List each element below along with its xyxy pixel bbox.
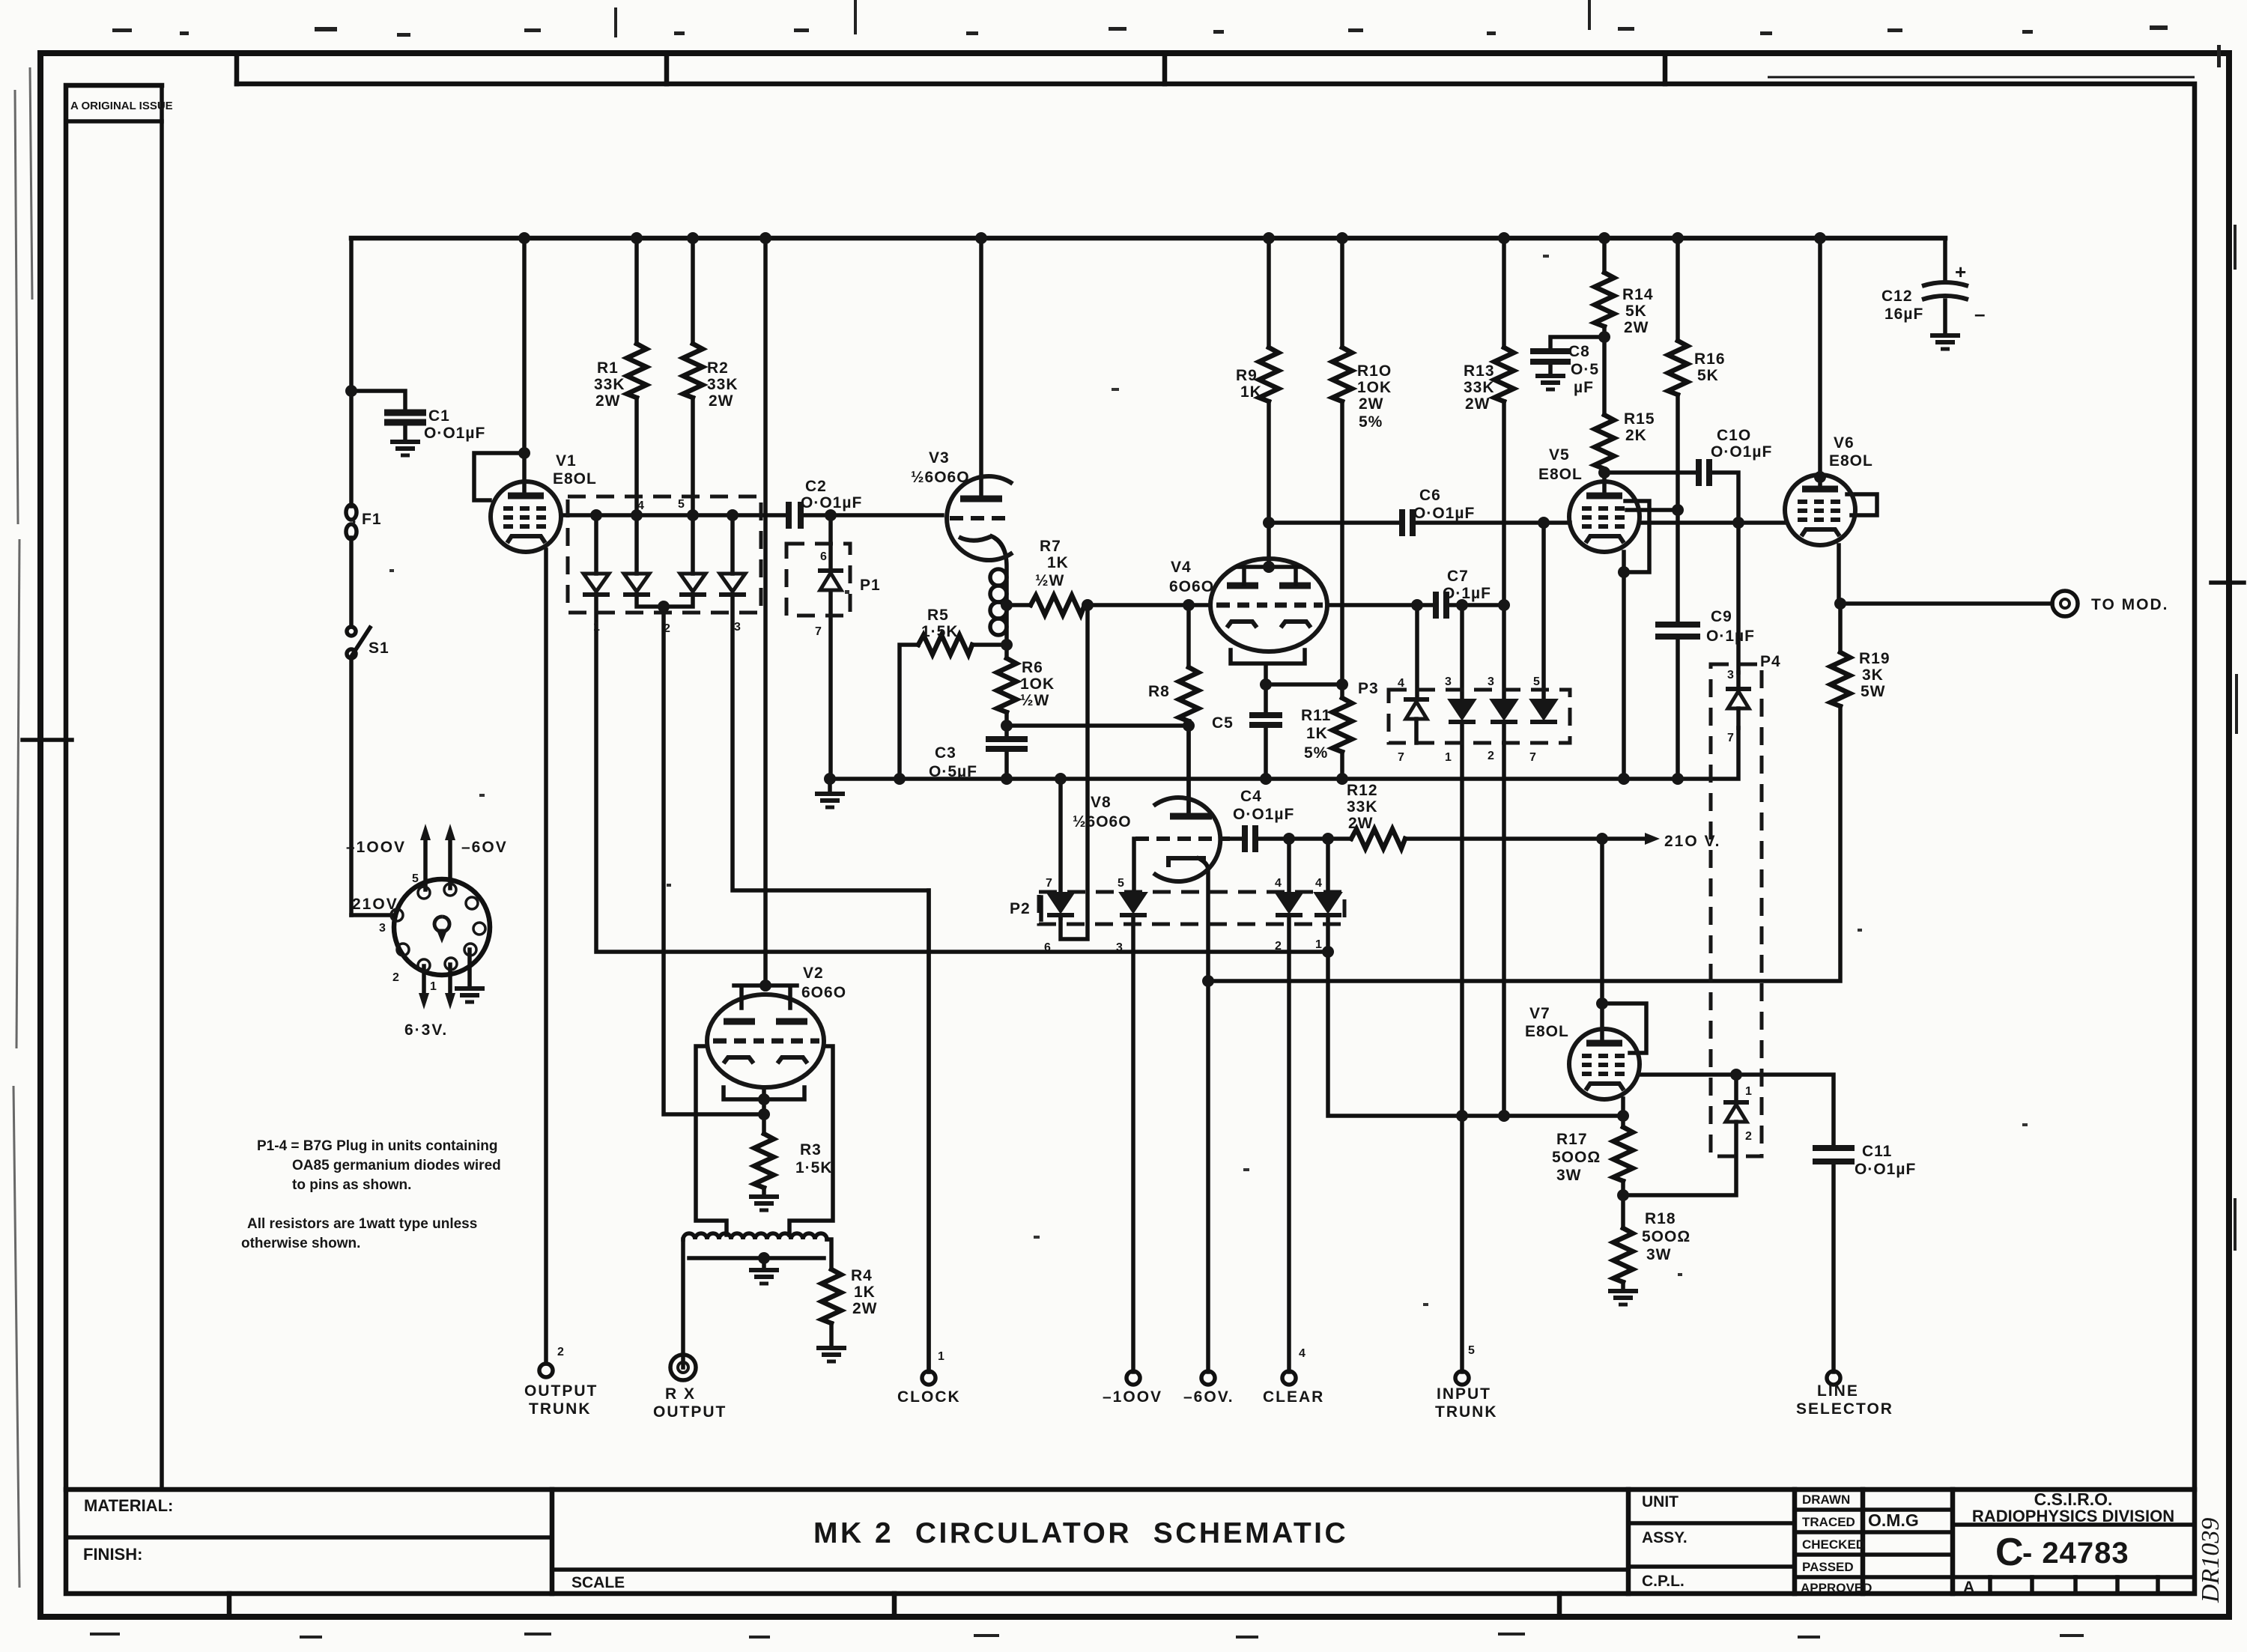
svg-text:R11: R11	[1301, 707, 1331, 724]
svg-text:RADIOPHYSICS DIVISION: RADIOPHYSICS DIVISION	[1972, 1507, 2174, 1525]
svg-text:1K: 1K	[1240, 383, 1262, 401]
svg-text:V4: V4	[1171, 559, 1192, 576]
svg-text:P4: P4	[1760, 653, 1781, 670]
svg-text:1K: 1K	[854, 1284, 876, 1301]
svg-text:½6O6O: ½6O6O	[1073, 813, 1132, 830]
svg-text:5K: 5K	[1697, 367, 1719, 384]
svg-text:R X: R X	[665, 1385, 696, 1403]
svg-text:R12: R12	[1347, 782, 1378, 799]
svg-text:5: 5	[1533, 675, 1540, 688]
svg-text:1OK: 1OK	[1020, 675, 1055, 693]
svg-text:P1: P1	[860, 577, 881, 594]
svg-text:F1: F1	[362, 511, 382, 528]
svg-text:½W: ½W	[1035, 572, 1064, 589]
svg-text:O·O1µF: O·O1µF	[424, 425, 485, 442]
svg-text:C1: C1	[428, 407, 450, 425]
svg-text:33K: 33K	[1464, 379, 1495, 396]
svg-text:CLOCK: CLOCK	[897, 1388, 961, 1406]
svg-text:OUTPUT: OUTPUT	[653, 1403, 727, 1421]
svg-text:C4: C4	[1240, 788, 1262, 805]
svg-text:OUTPUT: OUTPUT	[524, 1382, 598, 1400]
svg-text:6·3V.: 6·3V.	[404, 1021, 448, 1039]
svg-text:R19: R19	[1859, 650, 1890, 667]
svg-text:4: 4	[637, 499, 644, 512]
svg-text:3: 3	[734, 621, 741, 634]
svg-text:C12: C12	[1881, 288, 1913, 305]
svg-text:6: 6	[1044, 941, 1051, 954]
svg-text:OA85 germanium diodes wired: OA85 germanium diodes wired	[292, 1158, 501, 1173]
svg-text:–6OV: –6OV	[461, 839, 508, 856]
svg-text:6O6O: 6O6O	[1169, 578, 1214, 595]
svg-text:2: 2	[1745, 1130, 1752, 1143]
svg-text:R8: R8	[1148, 683, 1170, 700]
svg-text:V7: V7	[1529, 1005, 1550, 1022]
svg-text:R3: R3	[800, 1141, 822, 1158]
svg-text:R9: R9	[1236, 367, 1258, 384]
svg-text:4: 4	[1299, 1347, 1306, 1360]
svg-text:21OV: 21OV	[352, 896, 398, 913]
svg-text:V1: V1	[556, 452, 577, 470]
svg-text:5%: 5%	[1304, 744, 1328, 762]
svg-text:5%: 5%	[1359, 413, 1383, 431]
svg-text:SCALE: SCALE	[571, 1574, 625, 1591]
svg-text:P3: P3	[1358, 680, 1379, 697]
svg-text:C2: C2	[805, 478, 827, 495]
svg-text:7: 7	[1727, 732, 1734, 744]
svg-text:UNIT: UNIT	[1642, 1493, 1679, 1510]
svg-text:C6: C6	[1419, 487, 1441, 504]
svg-text:2: 2	[1275, 940, 1282, 953]
svg-text:1K: 1K	[1306, 725, 1328, 742]
svg-text:TRUNK: TRUNK	[529, 1400, 592, 1418]
svg-text:O·O1µF: O·O1µF	[1711, 443, 1772, 461]
svg-text:E8OL: E8OL	[553, 470, 597, 488]
svg-text:1: 1	[593, 621, 600, 634]
svg-text:DR1039: DR1039	[2197, 1518, 2225, 1603]
svg-text:DRAWN: DRAWN	[1802, 1492, 1850, 1507]
svg-text:16µF: 16µF	[1884, 306, 1923, 323]
svg-text:C8: C8	[1568, 343, 1590, 360]
svg-text:1: 1	[938, 1350, 944, 1363]
svg-text:1K: 1K	[1047, 554, 1069, 571]
svg-text:4: 4	[1315, 877, 1322, 890]
svg-text:2W: 2W	[1465, 395, 1491, 413]
svg-text:P2: P2	[1010, 900, 1031, 917]
svg-text:5K: 5K	[1625, 303, 1647, 320]
svg-text:ASSY.: ASSY.	[1642, 1529, 1687, 1546]
svg-text:TRACED: TRACED	[1802, 1515, 1855, 1529]
svg-text:6O6O: 6O6O	[801, 984, 846, 1001]
svg-text:2W: 2W	[1348, 815, 1374, 832]
svg-text:O·1µF: O·1µF	[1706, 628, 1755, 645]
svg-text:TRUNK: TRUNK	[1435, 1403, 1498, 1421]
svg-text:7: 7	[1398, 751, 1404, 764]
svg-text:7: 7	[1529, 751, 1536, 764]
svg-text:4: 4	[1398, 677, 1404, 690]
svg-text:2: 2	[557, 1346, 564, 1358]
svg-text:P1-4 = B7G Plug in units cont: P1-4 = B7G Plug in units containing	[257, 1138, 497, 1154]
svg-text:to pins as shown.: to pins as shown.	[292, 1177, 411, 1193]
svg-text:2K: 2K	[1625, 427, 1647, 444]
svg-text:2W: 2W	[1624, 319, 1649, 336]
svg-text:C7: C7	[1447, 568, 1469, 585]
svg-text:C3: C3	[935, 744, 956, 762]
svg-text:5OOΩ: 5OOΩ	[1642, 1228, 1690, 1245]
svg-text:1·5K: 1·5K	[795, 1159, 833, 1176]
svg-text:2: 2	[664, 622, 670, 635]
svg-text:3W: 3W	[1646, 1246, 1672, 1263]
svg-text:4: 4	[1275, 877, 1282, 890]
svg-text:–1OOV: –1OOV	[346, 839, 406, 856]
svg-text:1: 1	[1445, 751, 1452, 764]
svg-text:1OK: 1OK	[1357, 379, 1392, 396]
svg-text:CHECKED: CHECKED	[1802, 1537, 1865, 1552]
svg-text:E8OL: E8OL	[1538, 466, 1583, 483]
svg-text:–: –	[1974, 303, 1986, 325]
svg-text:O·5: O·5	[1571, 361, 1599, 378]
svg-text:S1: S1	[369, 640, 389, 657]
svg-text:R5: R5	[927, 607, 949, 624]
svg-text:2W: 2W	[1359, 395, 1384, 413]
svg-text:1·5K: 1·5K	[921, 623, 959, 640]
svg-text:33K: 33K	[1347, 798, 1378, 816]
svg-text:5: 5	[678, 498, 685, 511]
svg-text:R6: R6	[1022, 659, 1043, 676]
svg-text:O.M.G: O.M.G	[1868, 1510, 1919, 1530]
svg-text:O·O1µF: O·O1µF	[801, 494, 862, 511]
svg-text:R1O: R1O	[1357, 362, 1392, 380]
svg-text:3W: 3W	[1556, 1167, 1582, 1184]
svg-text:33K: 33K	[707, 376, 739, 393]
svg-text:3K: 3K	[1862, 666, 1884, 684]
svg-text:7: 7	[1046, 877, 1052, 890]
svg-text:E8OL: E8OL	[1525, 1023, 1569, 1040]
svg-text:V6: V6	[1834, 434, 1855, 452]
svg-text:2W: 2W	[595, 392, 621, 410]
svg-text:3: 3	[379, 922, 386, 935]
svg-text:C: C	[1995, 1531, 2024, 1574]
svg-text:3: 3	[1488, 675, 1494, 688]
svg-text:5: 5	[1468, 1344, 1475, 1357]
svg-text:SELECTOR: SELECTOR	[1796, 1400, 1893, 1418]
svg-text:PASSED: PASSED	[1802, 1560, 1854, 1574]
svg-text:µF: µF	[1574, 379, 1594, 396]
svg-text:7: 7	[815, 625, 822, 638]
svg-text:2: 2	[392, 971, 399, 984]
svg-text:R18: R18	[1645, 1210, 1676, 1227]
svg-text:5: 5	[412, 872, 419, 885]
svg-text:½6O6O: ½6O6O	[911, 469, 970, 486]
svg-text:MK 2 CIRCULATOR SCHEMATIC: MK 2 CIRCULATOR SCHEMATIC	[813, 1517, 1348, 1549]
svg-text:R14: R14	[1622, 286, 1654, 303]
svg-text:1: 1	[1745, 1085, 1752, 1098]
svg-text:E8OL: E8OL	[1829, 452, 1873, 470]
svg-text:MATERIAL:: MATERIAL:	[84, 1496, 173, 1515]
svg-text:5OOΩ: 5OOΩ	[1552, 1149, 1601, 1166]
svg-text:C.P.L.: C.P.L.	[1642, 1573, 1685, 1590]
svg-text:C1O: C1O	[1717, 427, 1751, 444]
svg-text:otherwise shown.: otherwise shown.	[241, 1236, 360, 1251]
svg-text:O·O1µF: O·O1µF	[1855, 1161, 1916, 1178]
svg-text:All resistors are 1watt type: All resistors are 1watt type unless	[247, 1216, 477, 1232]
svg-text:3: 3	[1116, 941, 1123, 954]
svg-text:TO MOD.: TO MOD.	[2091, 596, 2168, 613]
svg-text:21O V.: 21O V.	[1664, 833, 1720, 850]
svg-text:3: 3	[1727, 669, 1734, 681]
svg-text:5: 5	[1118, 877, 1124, 890]
svg-text:–6OV.: –6OV.	[1183, 1388, 1234, 1406]
svg-text:C9: C9	[1711, 608, 1732, 625]
svg-text:O·1µF: O·1µF	[1443, 585, 1491, 602]
svg-text:2W: 2W	[709, 392, 734, 410]
svg-text:1: 1	[1315, 938, 1322, 951]
svg-text:O·O1µF: O·O1µF	[1233, 806, 1294, 823]
svg-text:R7: R7	[1040, 538, 1061, 555]
svg-text:R1: R1	[597, 359, 619, 377]
svg-text:V5: V5	[1549, 446, 1570, 464]
svg-text:A: A	[1963, 1579, 1974, 1596]
svg-text:C11: C11	[1862, 1143, 1892, 1160]
svg-text:CLEAR: CLEAR	[1263, 1388, 1324, 1406]
svg-text:C5: C5	[1212, 714, 1234, 732]
svg-text:R4: R4	[851, 1267, 873, 1284]
svg-text:+: +	[1955, 261, 1967, 283]
svg-text:FINISH:: FINISH:	[83, 1545, 142, 1564]
svg-text:5W: 5W	[1861, 683, 1886, 700]
svg-text:–1OOV: –1OOV	[1103, 1388, 1162, 1406]
svg-text:2W: 2W	[852, 1300, 878, 1317]
svg-text:6: 6	[820, 550, 827, 563]
svg-text:1: 1	[430, 980, 437, 993]
svg-text:3: 3	[1445, 675, 1452, 688]
svg-text:R13: R13	[1464, 362, 1495, 380]
svg-text:- 24783: - 24783	[2022, 1537, 2129, 1570]
svg-text:R17: R17	[1556, 1131, 1588, 1148]
svg-text:V2: V2	[803, 965, 824, 982]
svg-text:O·5µF: O·5µF	[929, 763, 977, 780]
svg-text:O·O1µF: O·O1µF	[1413, 505, 1475, 522]
svg-text:INPUT: INPUT	[1437, 1385, 1491, 1403]
svg-text:V8: V8	[1091, 794, 1112, 811]
svg-text:½W: ½W	[1020, 692, 1049, 709]
svg-text:2: 2	[1488, 750, 1494, 762]
svg-text:33K: 33K	[594, 376, 625, 393]
svg-text:V3: V3	[929, 449, 950, 467]
svg-text:R2: R2	[707, 359, 729, 377]
svg-text:R15: R15	[1624, 410, 1655, 428]
svg-text:R16: R16	[1694, 350, 1726, 368]
svg-text:LINE: LINE	[1817, 1382, 1859, 1400]
svg-text:A ORIGINAL ISSUE: A ORIGINAL ISSUE	[70, 100, 173, 112]
svg-text:APPROVED: APPROVED	[1801, 1581, 1872, 1595]
